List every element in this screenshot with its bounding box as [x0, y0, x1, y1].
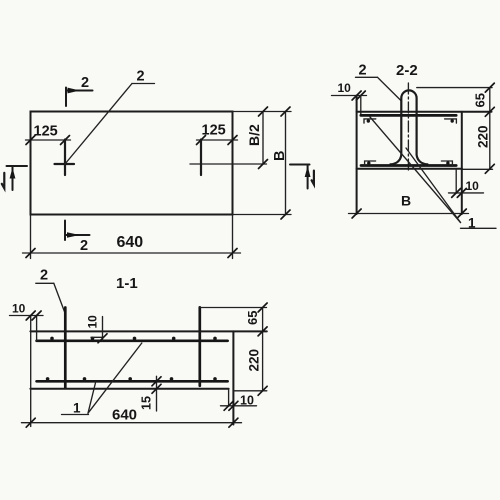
label 1	[62, 401, 89, 416]
svg-text:10: 10	[338, 81, 352, 95]
640 dim extension right	[232, 215, 234, 259]
section marker 1 left	[2, 166, 27, 190]
rebar hook bottom-right	[441, 161, 452, 165]
loop anchor point left	[55, 140, 75, 176]
10 dim top-left	[10, 302, 44, 321]
B/2 dimension	[246, 107, 268, 169]
125 dimension left	[26, 124, 71, 145]
svg-text:220: 220	[476, 125, 491, 148]
leader to rebar 1 bottom	[406, 148, 461, 223]
svg-text:10: 10	[240, 394, 254, 408]
left edge	[356, 96, 358, 215]
bar top extension	[200, 307, 267, 309]
longitudinal bar dots bottom	[46, 377, 217, 381]
svg-text:1: 1	[468, 216, 476, 231]
svg-text:1: 1	[73, 401, 81, 416]
top mesh bar	[37, 339, 228, 342]
B dimension	[272, 107, 290, 219]
svg-text:10: 10	[86, 315, 100, 329]
svg-text:65: 65	[473, 93, 488, 107]
220 dimension right	[476, 125, 495, 173]
svg-text:125: 125	[202, 123, 226, 139]
left edge extension	[30, 316, 32, 427]
top outline	[30, 330, 266, 332]
svg-text:640: 640	[117, 234, 144, 251]
rebar hook bottom-left	[365, 161, 376, 165]
section marker 2 top	[66, 75, 93, 106]
640 dim extension left	[30, 215, 32, 259]
loop top extension	[417, 87, 492, 89]
transverse loop bar left	[64, 308, 67, 388]
leader to mesh 1 top	[88, 343, 142, 413]
mesh extension top-left	[36, 316, 38, 341]
svg-text:2: 2	[359, 63, 367, 79]
640 dimension	[22, 407, 242, 428]
15 dim	[140, 376, 162, 411]
220 bottom extension	[233, 390, 266, 392]
rebar hook top-left	[364, 119, 376, 123]
svg-text:640: 640	[112, 407, 137, 424]
svg-text:10: 10	[466, 179, 480, 193]
rebar hook top-right	[445, 119, 457, 123]
svg-text:1-1: 1-1	[116, 275, 138, 292]
125 dimension right	[197, 123, 238, 145]
svg-text:125: 125	[34, 124, 58, 140]
longitudinal bar dots top	[50, 337, 217, 341]
mid axis line	[190, 163, 267, 165]
640 dimension	[23, 234, 241, 258]
bottom mesh bar	[361, 164, 456, 167]
label 1	[461, 216, 497, 231]
svg-text:B/2: B/2	[246, 124, 262, 146]
svg-text:2: 2	[81, 75, 89, 91]
mesh end extension top-left	[360, 96, 362, 116]
10 dim bottom-right	[221, 394, 257, 411]
section marker 1 right	[290, 165, 314, 189]
slab outline	[31, 112, 233, 215]
svg-text:2: 2	[40, 268, 48, 284]
bottom outline	[30, 388, 228, 390]
section marker 2 bottom	[65, 221, 90, 255]
B dimension bottom	[349, 193, 469, 219]
B dim extension top	[233, 111, 292, 113]
svg-text:2-2: 2-2	[396, 62, 418, 79]
bottom-right step extension	[228, 389, 230, 406]
svg-text:10: 10	[12, 302, 26, 316]
right edge	[232, 331, 234, 424]
10 dim mesh depth	[86, 315, 108, 343]
220 bottom extension	[462, 168, 493, 170]
loop axis line	[407, 83, 409, 170]
label 2 with leader	[356, 63, 402, 102]
transverse loop bar right	[198, 307, 201, 386]
label 2 with leader	[36, 268, 65, 313]
lifting loop	[390, 90, 427, 164]
right edge	[461, 112, 463, 214]
mesh end extension bottom-right	[455, 169, 457, 193]
10 dim bottom-right	[449, 179, 484, 197]
svg-text:220: 220	[247, 349, 262, 372]
B dim extension bottom	[233, 214, 292, 216]
svg-text:B: B	[401, 193, 411, 209]
leader to mesh 1 bottom	[88, 382, 96, 414]
leader to label 2	[65, 69, 155, 165]
svg-text:2: 2	[80, 238, 88, 254]
top mesh bar	[361, 114, 456, 117]
svg-text:2: 2	[137, 69, 145, 85]
10 dim top-left	[332, 81, 367, 100]
loop anchor point right	[200, 140, 202, 176]
top outline	[357, 111, 492, 113]
65 and 220 dimension right	[245, 303, 267, 395]
65 dimension right	[473, 83, 495, 169]
svg-text:B: B	[272, 151, 288, 161]
leader to rebar 1 top	[370, 117, 461, 223]
svg-text:15: 15	[140, 396, 154, 410]
svg-text:65: 65	[245, 311, 260, 325]
bottom mesh bar	[37, 380, 228, 383]
bottom outline	[357, 168, 462, 170]
